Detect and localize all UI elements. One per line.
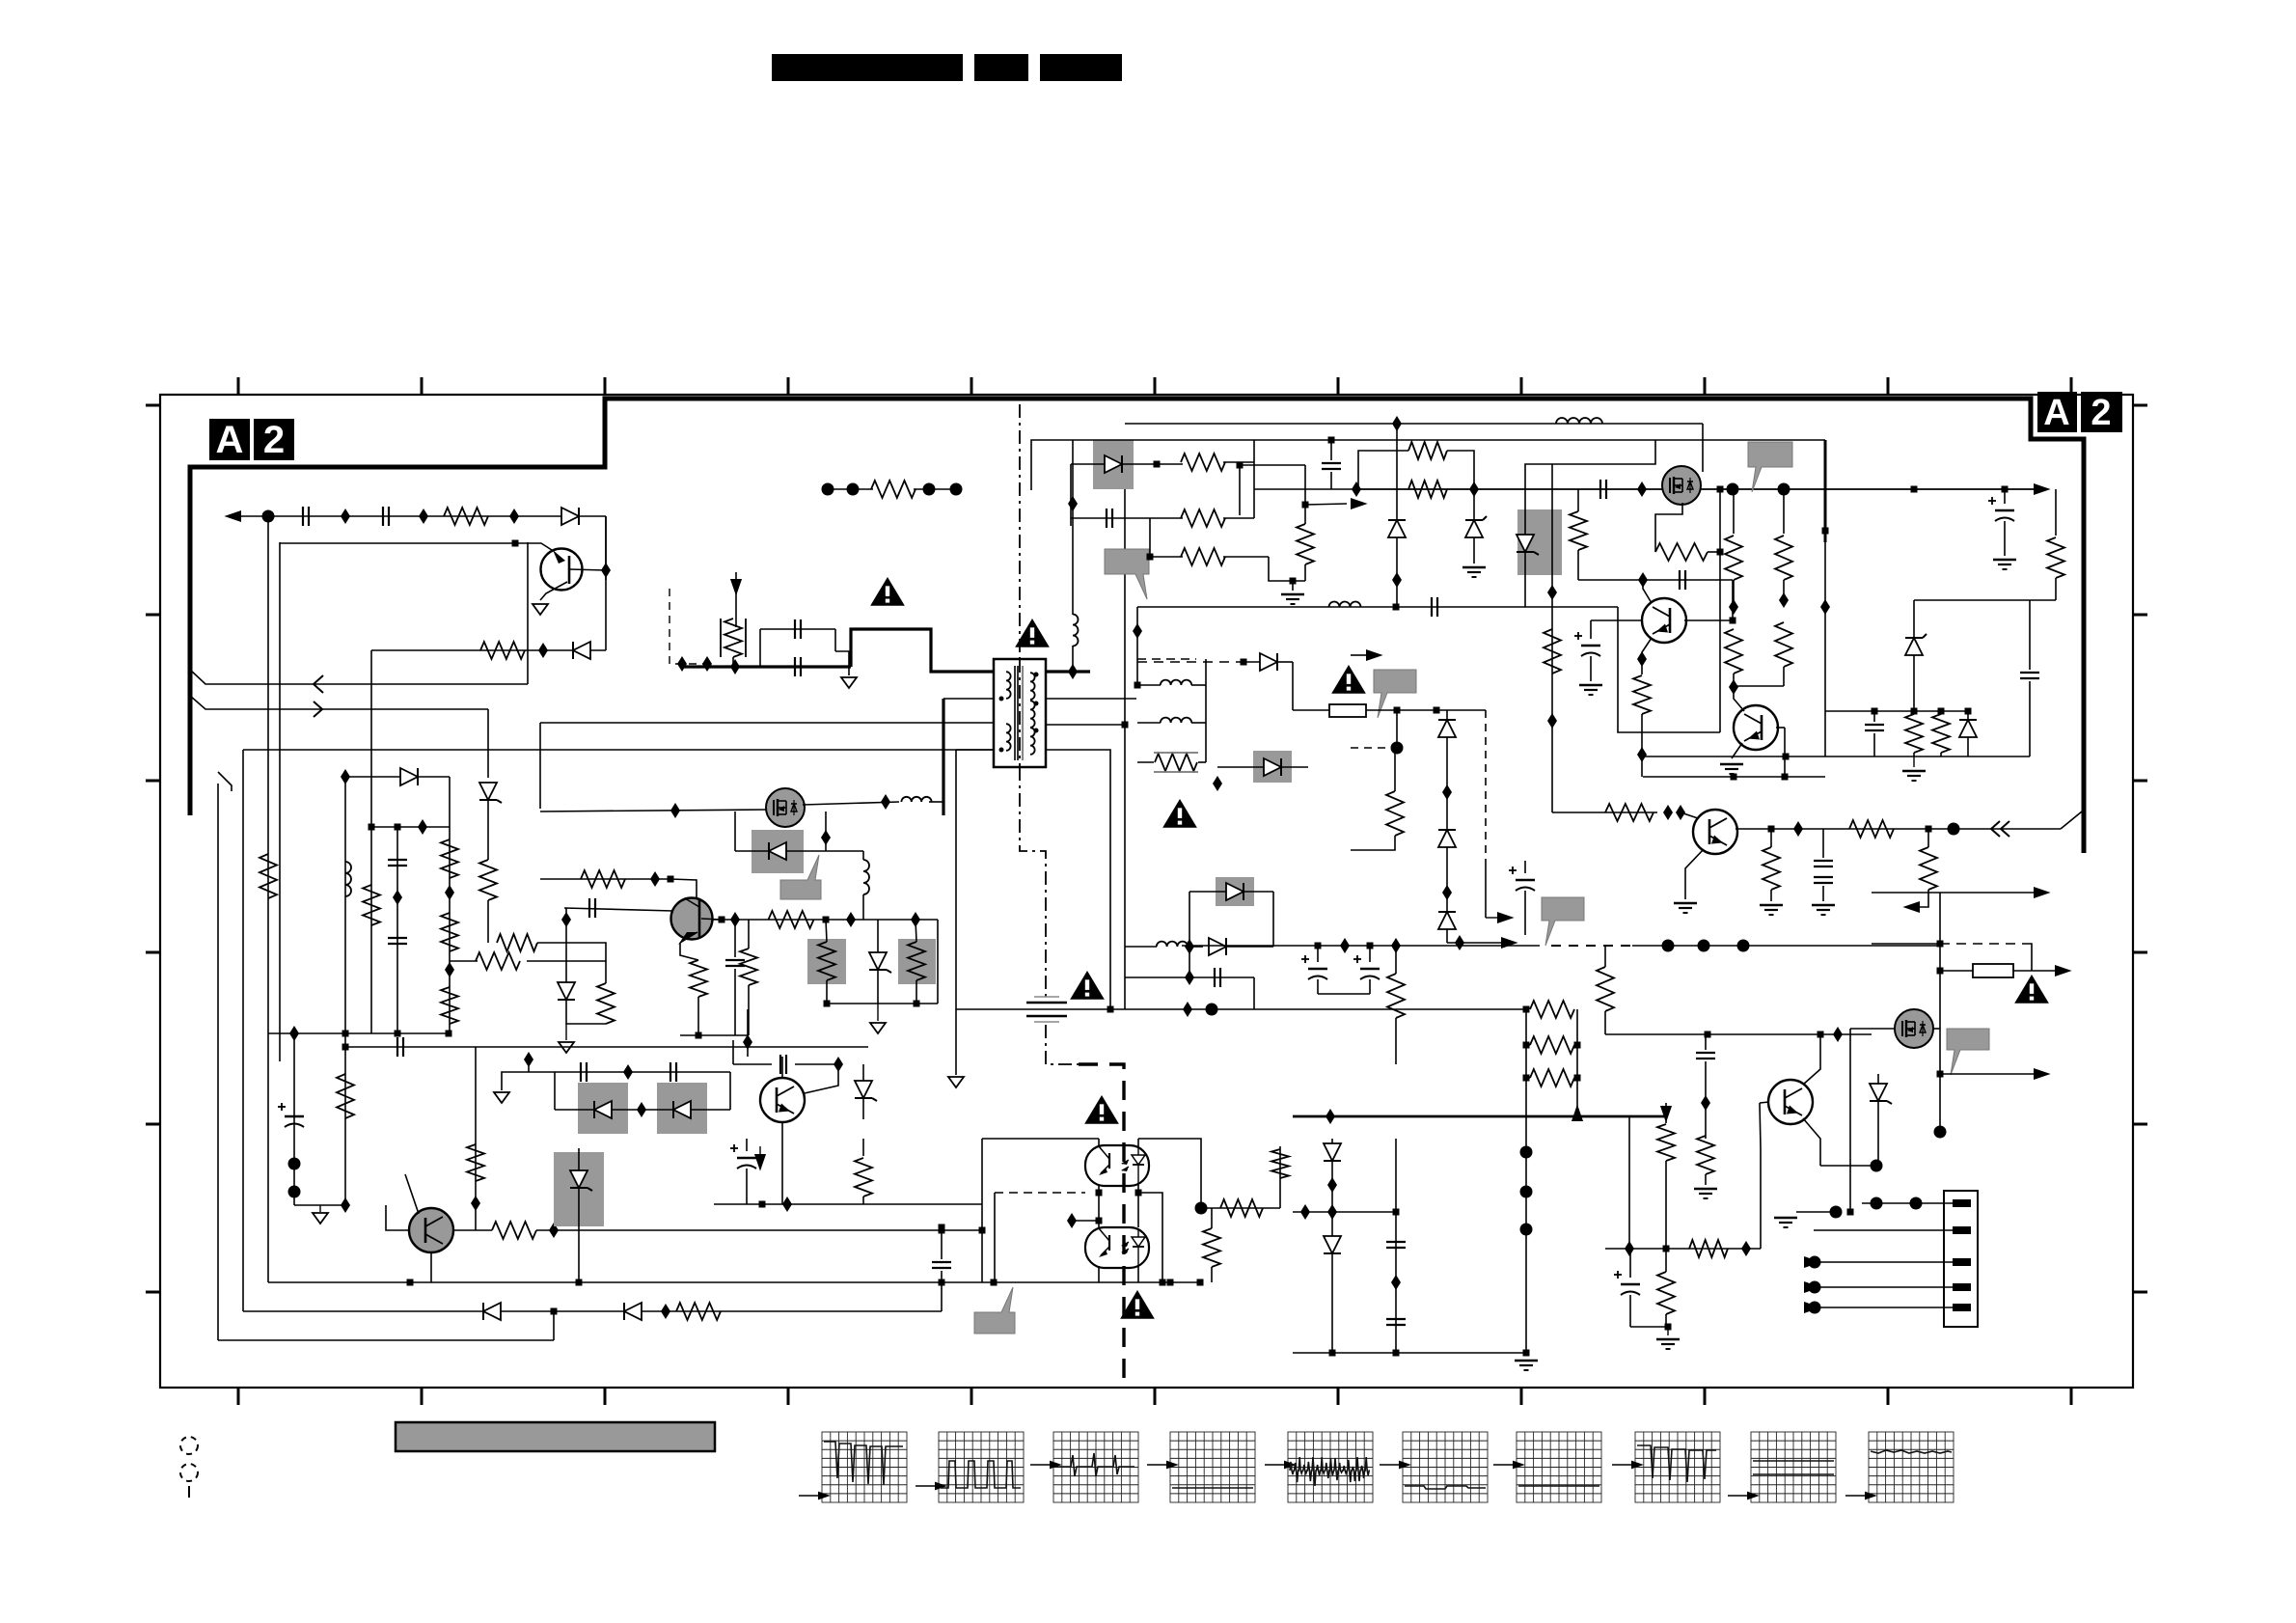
junction [719, 917, 725, 923]
wire [1149, 518, 1151, 557]
junction [702, 656, 712, 672]
capacitor C21 [1814, 860, 1833, 862]
resistor R53 [1657, 1124, 1675, 1161]
diode D29 [1189, 891, 1226, 893]
resistor R6 [337, 1074, 354, 1118]
wire row 1275 [604, 1229, 982, 1231]
resistor R7 [363, 885, 380, 925]
junction [1147, 554, 1154, 561]
wire opto pin [1098, 1266, 1100, 1282]
waveform trace 9 [1753, 1461, 1834, 1474]
svg-text:2: 2 [263, 419, 285, 461]
wire [697, 997, 699, 1035]
diode D5 [735, 850, 769, 852]
wire loop [1618, 607, 1720, 732]
capacitor C14 [1599, 480, 1601, 499]
node dot [1830, 1206, 1843, 1219]
waveform arrow [1845, 1495, 1865, 1497]
signal arrow [1804, 1256, 1821, 1268]
electrolytic C24 [1360, 968, 1380, 970]
wire [732, 1040, 734, 1064]
dashed bus gap [1551, 945, 1632, 947]
zener D4 [479, 783, 497, 800]
arrow [1497, 912, 1515, 923]
resistor R37 [1386, 791, 1404, 836]
wire Q6 emitter [1685, 849, 1704, 899]
resistor R45 [1657, 1272, 1675, 1314]
bus V1 [267, 516, 269, 1282]
resistor R9b [441, 987, 458, 1024]
resistor R19 [453, 1229, 492, 1231]
wire rail link [1254, 488, 1356, 490]
wire Q2 emitter down [680, 943, 698, 960]
arrow mains [730, 579, 742, 596]
mosfet M1 [1662, 466, 1701, 505]
wire lower row [371, 649, 606, 651]
gray box D14 [1093, 440, 1134, 489]
dashed outline [670, 589, 707, 664]
gray box R18 [898, 939, 936, 984]
transistor Q2 [671, 898, 713, 940]
heavy outline wire [190, 399, 2084, 853]
junction [1329, 1350, 1336, 1357]
mosfet M2 [766, 788, 805, 827]
capacitor C7 [388, 937, 407, 939]
T1 secondary pin mid [1047, 698, 1136, 700]
electrolytic C5 [285, 1115, 304, 1117]
wire [1217, 766, 1264, 768]
wire off-page upper [190, 670, 528, 684]
wire arrow out [1305, 504, 1347, 505]
waveform arrow [799, 1495, 818, 1497]
diode D23 [1438, 912, 1456, 929]
wire [1292, 662, 1294, 710]
bus 980 right [1632, 945, 1940, 947]
output rail [1356, 488, 2034, 490]
bus row 1329 [268, 1281, 1200, 1283]
inductor L6 [863, 860, 869, 894]
diode D19 [1959, 720, 1977, 737]
wire [827, 1003, 938, 1004]
junction [1134, 682, 1141, 689]
ground [1579, 684, 1602, 686]
inductor L2 [1137, 684, 1161, 686]
T1 primary winding upper [1006, 672, 1011, 699]
callout flag [974, 1287, 1015, 1334]
wire vertical [1824, 440, 1827, 542]
ground [1694, 1188, 1717, 1190]
electrolytic C18 [1581, 645, 1600, 646]
waveform arrow [1030, 1464, 1050, 1466]
signal arrow [1804, 1302, 1821, 1313]
resistor trio R40 [1530, 1001, 1574, 1018]
wire [1940, 1073, 2034, 1075]
T1 secondary winding [1030, 673, 1035, 700]
junction [1455, 935, 1464, 950]
registration mark lower [180, 1464, 198, 1481]
resistor R24 [1408, 442, 1447, 459]
ground [948, 1077, 964, 1087]
wire [1395, 1139, 1397, 1353]
junction [650, 871, 660, 887]
junction [393, 890, 402, 905]
wire [1796, 1211, 1836, 1213]
ground [1720, 763, 1743, 765]
junction [1779, 592, 1789, 608]
bus row 1402 [1293, 1352, 1526, 1354]
wire Q7 emitter [1732, 743, 1742, 758]
ground [1674, 902, 1697, 904]
dashed wire [1137, 658, 1196, 660]
capacitor C8 [588, 898, 590, 918]
capacitor C29 [1386, 1241, 1406, 1243]
capacitor C9 [396, 1037, 398, 1057]
wire [1485, 861, 1487, 918]
capacitor C25 [1696, 1052, 1715, 1054]
junction [1822, 528, 1829, 535]
resistor R39 [1597, 967, 1614, 1011]
waveform trace 3 [1055, 1453, 1134, 1476]
wire [714, 1203, 762, 1205]
arrow out [2034, 483, 2051, 495]
capacitor C13 [1106, 509, 1107, 528]
junction [881, 794, 890, 810]
bus row 1389 [218, 1339, 554, 1341]
capacitor C32 [1214, 968, 1216, 987]
wire [2030, 599, 2056, 601]
junction [1783, 754, 1790, 760]
zone label A (top-right) [2037, 392, 2077, 432]
wire top [540, 810, 768, 811]
arrow [1501, 937, 1518, 949]
resistor R36 [1920, 847, 1937, 890]
resistor R50 [1297, 524, 1314, 564]
wire [1396, 424, 1398, 489]
wire [713, 1204, 715, 1227]
junction [939, 1227, 945, 1234]
waveform grid 2 [939, 1432, 1024, 1502]
ground [1913, 756, 1915, 767]
junction [1326, 1109, 1335, 1124]
waveform grid 8 [1635, 1432, 1720, 1502]
T1 secondary pin bottom [1047, 750, 1110, 1009]
wire [1072, 1220, 1099, 1222]
callout flag [1542, 897, 1584, 946]
diode D21 [1438, 720, 1456, 737]
arrow [1940, 892, 2034, 894]
wire [941, 1282, 943, 1311]
junction [1523, 1006, 1530, 1013]
capacitor C1 [302, 507, 304, 526]
gray box D9 [578, 1083, 628, 1134]
waveform trace 2 [941, 1461, 1021, 1488]
zener D11 [570, 1170, 588, 1188]
T1 pin wire 2 [943, 698, 993, 700]
junction [1302, 502, 1309, 509]
capacitor C19 [1865, 724, 1884, 726]
resistor R2 [480, 642, 525, 659]
ladder chain B2 [370, 827, 372, 1033]
junction [821, 830, 831, 845]
junction [1068, 664, 1078, 679]
junction [637, 1102, 646, 1117]
title bar block 2 [974, 54, 1028, 81]
transistor Q3 [760, 1078, 805, 1122]
resistor R18 [908, 942, 925, 980]
diode D25 [1324, 1143, 1341, 1161]
ground [835, 651, 849, 675]
junction [1768, 826, 1775, 833]
inductor L8 [1329, 602, 1361, 608]
resistor R14 [476, 952, 520, 970]
junction [1160, 1279, 1166, 1286]
resistor R15 [690, 960, 707, 997]
ladder chain A [344, 777, 346, 1205]
diode D9 [594, 1101, 612, 1118]
sheet border [160, 395, 2133, 1388]
bus 980 [1182, 945, 1540, 947]
border tick marks bottom [237, 1388, 240, 1405]
wire [747, 1009, 749, 1057]
wire [1591, 619, 1643, 621]
junction [289, 1026, 299, 1041]
wire [1351, 836, 1395, 850]
resistor R13 [597, 983, 615, 1024]
wire pin4 [1815, 1286, 1953, 1288]
winding polarity dots [999, 697, 1004, 701]
junction [1340, 938, 1350, 953]
junction [1392, 416, 1402, 431]
wire opto right pins [1137, 1139, 1139, 1146]
diode D1 [561, 508, 579, 525]
isolation barrier dash-dot line to Y-cap [1046, 1025, 1079, 1064]
junction [677, 656, 687, 672]
capacitor C10 [779, 1055, 781, 1074]
wire [914, 488, 956, 490]
svg-text:2: 2 [2091, 393, 2111, 433]
wire [242, 750, 244, 1311]
wire [1681, 812, 1698, 818]
transistor Q1 [541, 549, 583, 591]
junction [1847, 1209, 1854, 1216]
junction [1937, 1071, 1944, 1078]
node dot [1871, 1160, 1883, 1172]
diode D2 [573, 642, 590, 659]
resistor R22 [1181, 509, 1225, 527]
junction [1637, 747, 1647, 762]
transistor Q6 [1693, 810, 1737, 854]
wire Q5 base [1684, 619, 1733, 621]
junction [341, 769, 350, 784]
wire [527, 961, 606, 983]
wire pin2 [1835, 1212, 1837, 1230]
callout flag [1947, 1029, 1989, 1075]
wire [1914, 599, 2030, 601]
inductor L10 [1073, 615, 1079, 646]
wire opto pin [1098, 1139, 1100, 1146]
capacitor C30 [1386, 1318, 1406, 1320]
wire [405, 1174, 419, 1214]
electrolytic C26 [1621, 1283, 1640, 1285]
wire [565, 908, 567, 982]
diode D12 [483, 1303, 501, 1320]
waveform grid 3 [1053, 1432, 1138, 1502]
chevron in [314, 675, 323, 693]
wire [370, 650, 372, 675]
junction [407, 1279, 414, 1286]
resistor R51 [2055, 489, 2057, 536]
connector pins [1953, 1199, 1971, 1207]
waveform trace 5 [1290, 1457, 1370, 1486]
wire [1702, 424, 1704, 472]
wire vertical dots [1525, 1078, 1527, 1353]
junction [1135, 1190, 1142, 1197]
ladder chain C [449, 777, 451, 1033]
wire Q7 collector [1734, 687, 1744, 711]
resistor R20 [676, 1303, 721, 1320]
capacitor C34 [725, 959, 745, 961]
junction [1391, 1275, 1401, 1290]
chevron in [1991, 821, 2000, 837]
wire Q1 base out [569, 569, 606, 570]
transformer T1 body [994, 659, 1046, 767]
wire [1760, 1103, 1761, 1148]
resistor R46 [1220, 1199, 1263, 1217]
diode D10 [673, 1101, 691, 1118]
resistor R34 [1849, 820, 1894, 838]
wire Q8 collector [1803, 1034, 1820, 1085]
junction [1911, 486, 1918, 493]
wire [729, 1072, 731, 1110]
wire [1760, 1148, 1762, 1249]
warning triangle [1331, 665, 1366, 694]
wire [1525, 440, 1655, 509]
resistor R1 [444, 508, 488, 525]
ground [877, 1004, 879, 1021]
zener D18 [1517, 535, 1534, 552]
wire [1447, 942, 1501, 944]
resistor R48 [1203, 1228, 1220, 1267]
wire snubber loop [732, 657, 734, 667]
arrow [2055, 965, 2072, 977]
ground [1515, 1360, 1538, 1362]
wire off-page lower [190, 696, 488, 709]
node dot [1662, 940, 1675, 952]
wire [1665, 1161, 1667, 1270]
junction [1705, 1032, 1711, 1038]
wire Q2 base out [701, 919, 722, 920]
junction [1352, 481, 1361, 497]
ground [1667, 1327, 1669, 1335]
junction [445, 962, 454, 977]
node dot [923, 483, 936, 496]
border tick marks left [146, 404, 160, 407]
diode D6 [558, 982, 575, 1000]
wire [937, 920, 939, 1004]
warning triangle [1070, 971, 1105, 1000]
heavy wire to transformer [851, 629, 993, 672]
warning triangle [2014, 975, 2049, 1004]
waveform grid 5 [1288, 1432, 1373, 1502]
wire to signal ground [955, 750, 957, 1075]
ground [1774, 1217, 1797, 1219]
resistor R30 [1905, 714, 1923, 753]
wire Q5 collector [1643, 580, 1652, 603]
wire [1269, 557, 1305, 581]
wire pin3 [1815, 1261, 1953, 1263]
bus 1046 [956, 1008, 1526, 1010]
wire [1253, 440, 1255, 518]
junction [419, 509, 428, 524]
bus V2 [279, 542, 281, 1061]
gray box R17 [807, 939, 846, 984]
junction [1663, 805, 1673, 820]
title bar block 3 [1040, 54, 1122, 81]
arrow [2034, 1068, 2051, 1080]
junction [601, 563, 611, 578]
junction [1937, 941, 1944, 948]
wire row 1294 [1605, 1248, 1761, 1250]
junction [1154, 461, 1161, 468]
wire [1872, 892, 1940, 894]
junction [1638, 572, 1648, 588]
wire fuse row [1940, 970, 1973, 972]
resistor ladder X2 [1783, 489, 1785, 534]
registration mark tick [188, 1486, 190, 1498]
resistor R26 [1570, 511, 1587, 550]
snubber loop [759, 629, 761, 667]
junction [524, 1052, 533, 1067]
junction [538, 643, 548, 658]
node dot [1391, 742, 1404, 755]
border tick marks right [2133, 404, 2147, 407]
junction [743, 1034, 752, 1050]
dashed wire [1351, 747, 1397, 749]
wire [1396, 710, 1398, 748]
wire ladder [1551, 607, 1553, 812]
wire row 1329 links [939, 1279, 945, 1286]
resistor R43 [1697, 1136, 1714, 1174]
gray box D11 [554, 1152, 604, 1226]
wire stub [293, 1033, 295, 1205]
capacitor C16 [1431, 597, 1433, 617]
transformer core [1014, 666, 1016, 760]
waveform arrow [1380, 1464, 1399, 1466]
node dot [288, 1186, 301, 1198]
heavy mains wire [682, 665, 851, 668]
callout flag [1374, 670, 1416, 718]
warning triangle [1120, 1290, 1155, 1319]
junction [1241, 659, 1247, 666]
signal arrow [1804, 1281, 1821, 1293]
node dot [1778, 483, 1790, 496]
wire [1240, 464, 1305, 466]
junction [670, 803, 680, 818]
junction [1237, 462, 1244, 469]
junction [1701, 1095, 1710, 1111]
arrow [1572, 1104, 1583, 1121]
wire [370, 675, 372, 827]
junction [759, 1201, 766, 1208]
transistor Q7 [1734, 705, 1778, 750]
junction [342, 1031, 349, 1037]
waveform arrow [1728, 1495, 1747, 1497]
node dot [1195, 1202, 1208, 1215]
node dot [1934, 1126, 1947, 1139]
wire Q3 emitter [781, 1122, 783, 1204]
waveform trace 4 [1172, 1487, 1253, 1489]
diode D27 [1264, 758, 1281, 776]
